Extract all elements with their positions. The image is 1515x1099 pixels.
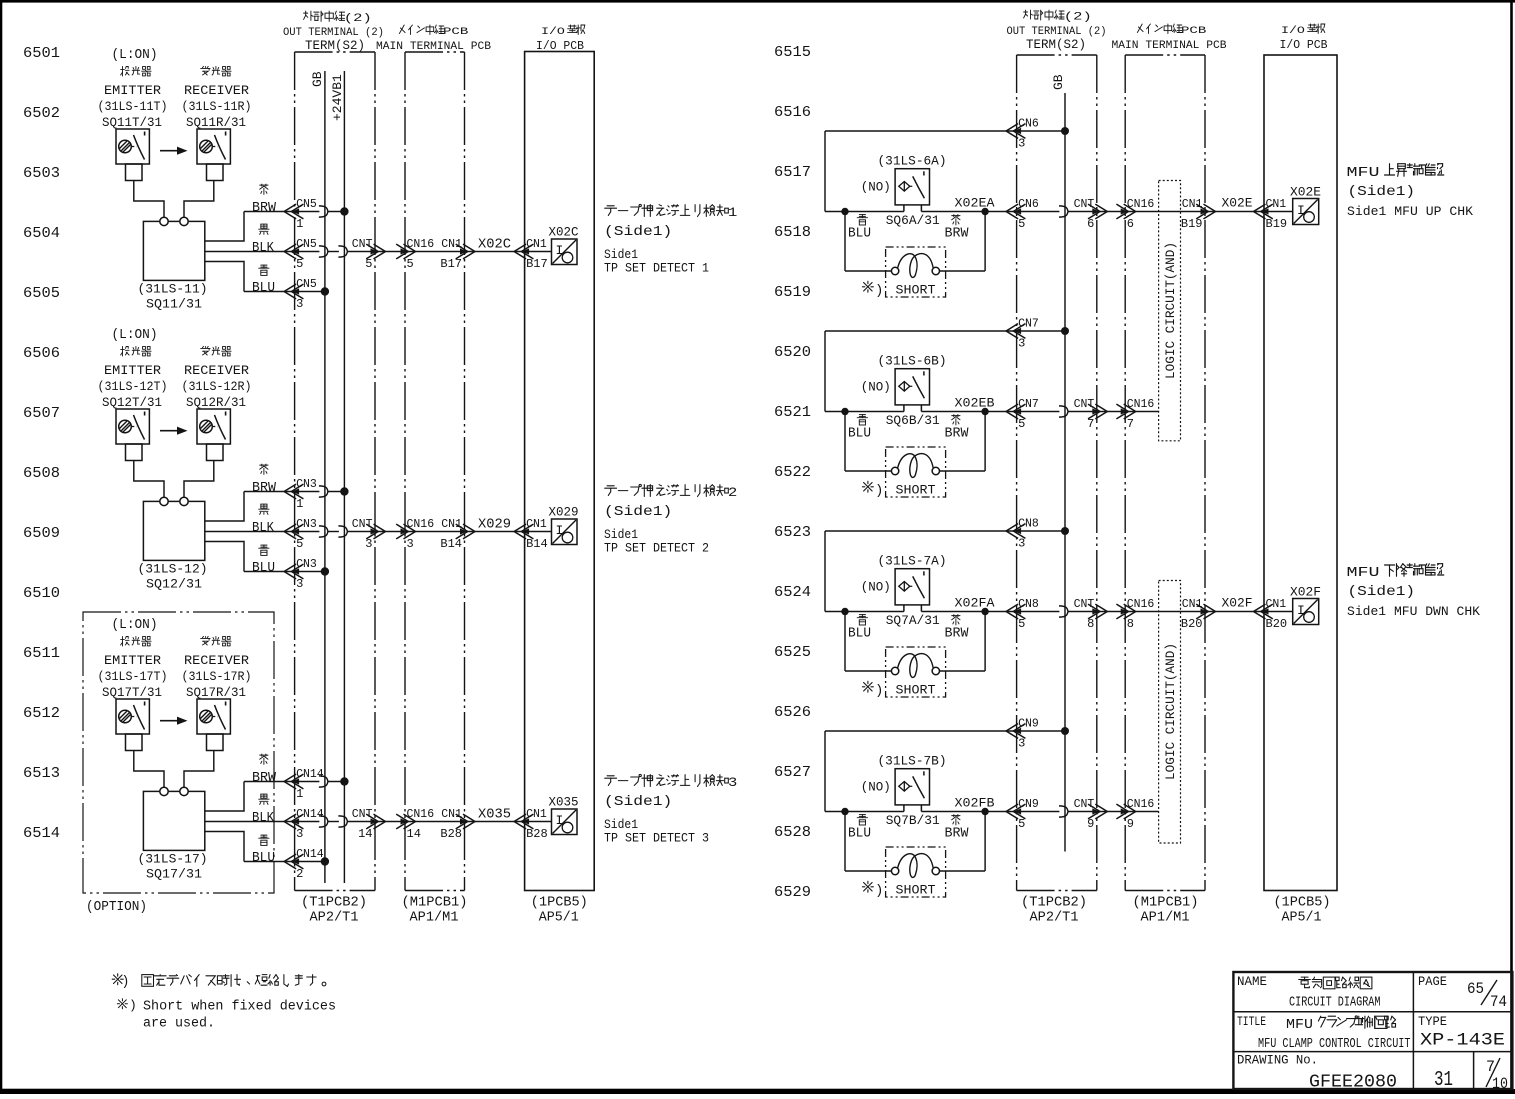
connector CN1 pin B19 arrow xyxy=(1181,198,1216,231)
label (M1PCB1) AP1/M1 left xyxy=(402,896,468,926)
svg-text:BLU: BLU xyxy=(848,827,871,842)
svg-text:(NO): (NO) xyxy=(861,380,891,395)
svg-text:MFU: MFU xyxy=(1286,1018,1313,1033)
I/O PCB box right (1PCB5) xyxy=(1264,55,1337,891)
svg-text:1: 1 xyxy=(296,217,303,231)
svg-text:CN7: CN7 xyxy=(1018,318,1039,331)
switch 31LS-6A (NO) symbol SQ6A/31 xyxy=(825,169,1017,212)
svg-text:(1PCB5): (1PCB5) xyxy=(1274,896,1331,911)
svg-text:BLU: BLU xyxy=(252,561,275,576)
description テープ押え浮上り検知3 (Side1) xyxy=(604,774,737,845)
svg-text:X02E: X02E xyxy=(1290,185,1321,200)
connector CN14 pin 1 arrow xyxy=(284,768,324,801)
svg-text:2: 2 xyxy=(728,485,737,500)
SHORT jumper for 31LS-6A xyxy=(845,212,985,298)
svg-text:6524: 6524 xyxy=(774,584,811,601)
amplifier unit (31LS-11) SQ11/31 xyxy=(138,217,208,311)
svg-text:AP5/1: AP5/1 xyxy=(539,911,579,926)
connector CN16 pin 3 arrow xyxy=(396,518,434,551)
title block DRAWING No. field GFEE2080 xyxy=(1237,1054,1397,1093)
svg-text:3: 3 xyxy=(296,577,303,591)
svg-text:CN1: CN1 xyxy=(441,518,462,531)
svg-text:(2): (2) xyxy=(344,13,372,25)
connector CN14 pin 3 arrow xyxy=(284,808,324,841)
SHORT jumper for 31LS-6B xyxy=(845,412,985,498)
svg-text:CN1: CN1 xyxy=(526,808,547,821)
junction SHORT left at switch row xyxy=(841,208,848,215)
wire receiver to amplifier 31LS-11 xyxy=(184,181,214,218)
svg-text:6521: 6521 xyxy=(774,404,811,421)
svg-text:(31LS-17): (31LS-17) xyxy=(138,852,208,867)
svg-text:CN1: CN1 xyxy=(1266,598,1287,611)
svg-text:(31LS-12R): (31LS-12R) xyxy=(182,379,252,394)
svg-text:6522: 6522 xyxy=(774,464,811,481)
svg-text:NAME: NAME xyxy=(1237,975,1267,989)
svg-text:LOGIC CIRCUIT(AND): LOGIC CIRCUIT(AND) xyxy=(1164,643,1178,780)
svg-text:AP2/T1: AP2/T1 xyxy=(310,911,359,926)
svg-text:1: 1 xyxy=(728,205,738,220)
svg-text:X02C: X02C xyxy=(549,225,579,240)
svg-text:BRW: BRW xyxy=(945,227,970,242)
svg-text:3: 3 xyxy=(1018,737,1025,751)
svg-text:SQ7A/31: SQ7A/31 xyxy=(886,613,940,628)
title block sheet fraction 7/10 xyxy=(1486,1058,1508,1093)
svg-text:5: 5 xyxy=(1018,217,1025,231)
svg-text:(L:ON): (L:ON) xyxy=(112,328,158,343)
svg-text:SHORT: SHORT xyxy=(896,483,936,498)
connector CN16 pin 5 arrow xyxy=(396,238,434,271)
svg-text:(31LS-11T): (31LS-11T) xyxy=(98,99,168,114)
svg-text:(31LS-12T): (31LS-12T) xyxy=(98,379,168,394)
note mark ※) xyxy=(862,681,883,699)
svg-text:7: 7 xyxy=(1127,417,1134,431)
svg-text:I/O: I/O xyxy=(1281,25,1305,37)
wire receiver to amplifier 31LS-17 xyxy=(184,751,214,788)
junction BRW to +24VB1 xyxy=(340,487,348,495)
svg-text:TP SET DETECT 1: TP SET DETECT 1 xyxy=(604,262,709,276)
junction CN8.3 wire to GB xyxy=(1061,527,1069,535)
junction SHORT right / net X02FA xyxy=(981,608,988,615)
SHORT jumper for 31LS-7B xyxy=(845,812,985,898)
svg-text:BRW: BRW xyxy=(945,627,970,642)
svg-text:5: 5 xyxy=(1018,617,1025,631)
svg-text:AP1/M1: AP1/M1 xyxy=(1141,911,1190,926)
svg-text:6526: 6526 xyxy=(774,704,811,721)
svg-text:BLK: BLK xyxy=(252,521,275,536)
label (31LS-6A) and (NO) xyxy=(861,154,947,195)
connector CN1 B14 arrow at I/O PCB xyxy=(514,518,548,551)
wire BLU blue from SQ12 to GB xyxy=(205,542,325,572)
svg-text:8: 8 xyxy=(1127,617,1134,631)
svg-text:Side1: Side1 xyxy=(604,528,638,542)
svg-text:EMITTER: EMITTER xyxy=(104,653,161,668)
connector CNT pin 7 arrow xyxy=(1074,398,1108,431)
wire BRW brown from SQ12 to CN3.1 xyxy=(205,486,345,521)
junction BRW to +24VB1 xyxy=(340,207,348,215)
svg-text:CN9: CN9 xyxy=(1018,718,1039,731)
wire left leg of 31LS-7A xyxy=(824,531,826,612)
svg-text:BLU: BLU xyxy=(848,427,871,442)
svg-text:6517: 6517 xyxy=(774,164,811,181)
svg-text:+24VB1: +24VB1 xyxy=(330,74,345,121)
svg-text:SQ12T/31: SQ12T/31 xyxy=(102,395,162,410)
svg-text:2: 2 xyxy=(296,867,303,881)
label 黒 BLK xyxy=(252,504,275,536)
svg-text:): ) xyxy=(875,483,883,499)
connector CN7 pin 3 arrow xyxy=(1006,318,1039,351)
svg-text:AP1/M1: AP1/M1 xyxy=(410,911,459,926)
svg-text:(L:ON): (L:ON) xyxy=(112,618,158,633)
svg-text:6506: 6506 xyxy=(23,345,60,362)
junction BLU to GB xyxy=(321,857,329,865)
svg-text:(NO): (NO) xyxy=(861,780,891,795)
svg-text:BRW: BRW xyxy=(945,427,970,442)
svg-text:SHORT: SHORT xyxy=(896,283,936,298)
right line numbers 6515-6529 xyxy=(774,44,811,901)
svg-text:BLU: BLU xyxy=(252,851,275,866)
svg-text:X02EB: X02EB xyxy=(955,396,995,411)
svg-text:SQ11T/31: SQ11T/31 xyxy=(102,115,162,130)
wire BRW brown from SQ11 to CN5.1 xyxy=(205,206,345,241)
photoelectric sensor pair 31LS-11 block xyxy=(112,48,158,63)
svg-text:6515: 6515 xyxy=(774,44,811,61)
I/O port symbol X035 xyxy=(549,795,579,835)
svg-text:OUT TERMINAL (2): OUT TERMINAL (2) xyxy=(283,27,384,39)
svg-text:(NO): (NO) xyxy=(861,580,891,595)
label SQ6A/31 with 青 BLU and 茶 BRW xyxy=(848,213,969,242)
label 茶 BRW xyxy=(252,464,277,496)
logic circuit AND box 2 xyxy=(1159,581,1181,844)
power bus +24VB1 (left half) xyxy=(330,71,345,883)
svg-text:SQ17R/31: SQ17R/31 xyxy=(186,685,246,700)
connector CN3 pin 1 arrow xyxy=(284,478,317,511)
label (T1PCB2) AP2/T1 left xyxy=(301,896,367,926)
svg-text:X02E: X02E xyxy=(1222,196,1253,211)
note mark ※) xyxy=(862,481,883,499)
svg-text:CNT: CNT xyxy=(1074,198,1095,211)
terminal column box MAIN TERMINAL PCB left (M1PCB1) xyxy=(405,52,465,891)
svg-text:CN8: CN8 xyxy=(1018,598,1039,611)
svg-text:5: 5 xyxy=(407,257,414,271)
svg-text:B28: B28 xyxy=(526,827,548,841)
emitter cable connector xyxy=(126,734,143,751)
svg-text:TP SET DETECT 2: TP SET DETECT 2 xyxy=(604,542,709,556)
svg-text:TERM(S2): TERM(S2) xyxy=(1026,38,1086,52)
connector CN1 pin B14 arrow xyxy=(440,518,475,551)
svg-text:10: 10 xyxy=(1492,1075,1508,1093)
svg-text:BLU: BLU xyxy=(848,227,871,242)
svg-text:(31LS-17R): (31LS-17R) xyxy=(182,669,252,684)
OPTION dash-dot enclosure around 31LS-17 xyxy=(83,612,274,915)
light beam arrow emitter to receiver xyxy=(160,147,188,155)
svg-text:(31LS-6A): (31LS-6A) xyxy=(878,154,947,169)
svg-text:MFU: MFU xyxy=(1347,565,1380,581)
svg-text:CNT: CNT xyxy=(1074,798,1095,811)
connector CN1 B28 arrow at I/O PCB xyxy=(514,808,548,841)
svg-text:EMITTER: EMITTER xyxy=(104,83,161,98)
connector CN8 pin 5 arrow xyxy=(1006,598,1039,631)
svg-text:(M1PCB1): (M1PCB1) xyxy=(402,896,468,911)
svg-text:MFU: MFU xyxy=(1347,165,1380,181)
right column header OUT TERMINAL(2) / TERM(S2) xyxy=(1007,10,1107,52)
label 茶 BRW xyxy=(252,754,277,786)
connector CNT pin 8 arrow xyxy=(1074,598,1108,631)
label (T1PCB2) AP2/T1 right xyxy=(1021,896,1087,926)
I/O port symbol X02E xyxy=(1290,185,1321,225)
svg-text:CN1: CN1 xyxy=(526,518,547,531)
limit switch block 31LS-6A xyxy=(0,0,1,1)
svg-text:SQ11/31: SQ11/31 xyxy=(146,297,202,312)
connector CNT pin 5 arrow xyxy=(352,238,386,271)
receiver sensor SQ17R/31 symbol xyxy=(197,699,230,734)
svg-text:CN5: CN5 xyxy=(296,238,317,251)
label 青 BLU xyxy=(252,265,275,296)
wire emitter to amplifier 31LS-11 xyxy=(134,181,164,218)
I/O PCB box left (1PCB5) xyxy=(525,52,595,891)
svg-text:CN14: CN14 xyxy=(296,768,324,781)
connector CN16 pin 8 arrow xyxy=(1116,598,1154,631)
svg-text:PCB: PCB xyxy=(1181,25,1206,37)
svg-text:X02C: X02C xyxy=(478,237,511,252)
svg-text:CNT: CNT xyxy=(352,808,373,821)
label (31LS-6B) and (NO) xyxy=(861,354,947,395)
wire receiver to amplifier 31LS-12 xyxy=(184,461,214,498)
connector CN5 pin 3 arrow xyxy=(284,278,317,311)
limit switch block 31LS-7B xyxy=(0,0,1,1)
terminal column box TERM(S2) left (T1PCB2) xyxy=(295,52,375,891)
svg-text:CNT: CNT xyxy=(352,238,373,251)
photoelectric sensor pair 31LS-12 block xyxy=(112,328,158,343)
svg-text:X02FB: X02FB xyxy=(955,796,995,811)
connector CNT pin 9 arrow xyxy=(1074,798,1108,831)
wire BLK black signal from SQ11 through terminals xyxy=(205,246,552,257)
svg-text:3: 3 xyxy=(1018,337,1025,351)
connector CN16 pin 14 arrow xyxy=(396,808,434,841)
limit switch block 31LS-7A xyxy=(0,0,1,1)
junction SHORT left at switch row xyxy=(841,808,848,815)
junction SHORT left at switch row xyxy=(841,608,848,615)
svg-text:): ) xyxy=(875,883,883,899)
left column header I/O PCB xyxy=(536,25,585,53)
svg-text:CN16: CN16 xyxy=(407,808,435,821)
connector CN16 pin 6 arrow xyxy=(1116,198,1154,231)
connector CN16 pin 7 arrow xyxy=(1116,398,1154,431)
logic circuit AND box 1 xyxy=(1159,181,1181,441)
wire BLU blue from SQ17 to GB xyxy=(205,832,325,862)
svg-text:7: 7 xyxy=(1087,417,1094,431)
switch 31LS-6B (NO) symbol SQ6B/31 xyxy=(825,369,1017,412)
label (31LS-7A) and (NO) xyxy=(861,554,947,595)
svg-text:(Side1): (Side1) xyxy=(1348,184,1416,200)
svg-text:AP5/1: AP5/1 xyxy=(1282,911,1322,926)
svg-text:BRW: BRW xyxy=(252,201,277,216)
svg-text:TITLE: TITLE xyxy=(1237,1015,1266,1029)
svg-text:6528: 6528 xyxy=(774,824,811,841)
connector CN5 pin 5 arrow xyxy=(284,238,317,271)
svg-text:(T1PCB2): (T1PCB2) xyxy=(1021,896,1087,911)
svg-text:BLU: BLU xyxy=(252,281,275,296)
signal wire X02FA through terminals xyxy=(1017,606,1293,617)
svg-text:CN16: CN16 xyxy=(407,238,435,251)
junction BLU to GB xyxy=(321,287,329,295)
I/O port symbol X02C xyxy=(549,225,579,265)
svg-text:CN16: CN16 xyxy=(1127,398,1155,411)
connector CN14 pin 2 arrow xyxy=(284,848,324,881)
svg-text:5: 5 xyxy=(296,257,303,271)
emitter labels 投光器 EMITTER (31LS-12T) SQ12T/31 xyxy=(98,347,168,411)
junction BLU to GB xyxy=(321,567,329,575)
receiver labels 受光器 RECEIVER (31LS-12R) SQ12R/31 xyxy=(182,347,252,411)
svg-text:SHORT: SHORT xyxy=(896,883,936,898)
connector CN9 pin 5 arrow xyxy=(1006,798,1039,831)
svg-text:5: 5 xyxy=(1018,417,1025,431)
svg-text:6502: 6502 xyxy=(23,105,60,122)
switch 31LS-7B (NO) symbol SQ7B/31 xyxy=(825,769,1017,812)
svg-text:8: 8 xyxy=(1087,617,1094,631)
connector CNT pin 6 arrow xyxy=(1074,198,1108,231)
svg-text:CN5: CN5 xyxy=(296,198,317,211)
svg-text:X029: X029 xyxy=(549,505,579,520)
label 青 BLU xyxy=(252,835,275,866)
limit switch block 31LS-6B xyxy=(0,0,1,1)
svg-text:X02F: X02F xyxy=(1290,585,1321,600)
svg-text:6509: 6509 xyxy=(23,525,60,542)
receiver cable connector xyxy=(207,444,224,461)
connector CN3 pin 5 arrow xyxy=(284,518,317,551)
connector CN1 pin B17 arrow xyxy=(440,238,475,271)
wire CN7.3 to GB bus xyxy=(825,330,1065,332)
svg-text:CN1: CN1 xyxy=(441,238,462,251)
svg-text:I/O: I/O xyxy=(541,26,565,38)
svg-text:6519: 6519 xyxy=(774,284,811,301)
svg-text:X02EA: X02EA xyxy=(955,196,995,211)
I/O port symbol X02F xyxy=(1290,585,1321,625)
wire left leg of 31LS-6A xyxy=(824,131,826,212)
svg-text:(2): (2) xyxy=(1064,12,1092,24)
svg-text:6501: 6501 xyxy=(23,45,60,62)
wire emitter to amplifier 31LS-12 xyxy=(134,461,164,498)
svg-text:6504: 6504 xyxy=(23,225,60,242)
svg-text:(31LS-11R): (31LS-11R) xyxy=(182,99,252,114)
svg-text:B19: B19 xyxy=(1266,217,1288,231)
svg-text:X035: X035 xyxy=(549,795,579,810)
connector CN1 pin B20 arrow xyxy=(1181,598,1216,631)
signal wire X02FB through terminals xyxy=(1017,806,1159,817)
svg-text:(Side1): (Side1) xyxy=(604,504,672,520)
emitter labels 投光器 EMITTER (31LS-11T) SQ11T/31 xyxy=(98,67,168,131)
svg-text:CN6: CN6 xyxy=(1018,118,1039,131)
svg-text:SQ17/31: SQ17/31 xyxy=(146,867,202,882)
wire BLK black signal from SQ12 through terminals xyxy=(205,526,552,537)
svg-text:7: 7 xyxy=(1486,1058,1495,1076)
svg-text:): ) xyxy=(129,998,137,1013)
connector CNT pin 3 arrow xyxy=(352,518,386,551)
svg-text:6525: 6525 xyxy=(774,644,811,661)
svg-text:): ) xyxy=(875,283,883,299)
svg-text:BRW: BRW xyxy=(945,827,970,842)
svg-text:(Side1): (Side1) xyxy=(1348,584,1416,600)
left column header MAIN TERMINAL PCB xyxy=(376,25,491,53)
svg-text:CNT: CNT xyxy=(1074,398,1095,411)
receiver cable connector xyxy=(207,164,224,181)
svg-text:CN8: CN8 xyxy=(1018,518,1039,531)
note ※) 固定デバイス時は、短絡します。 xyxy=(112,974,326,990)
switch 31LS-7A (NO) symbol SQ7A/31 xyxy=(825,569,1017,612)
svg-text:6518: 6518 xyxy=(774,224,811,241)
svg-text:XP-143E: XP-143E xyxy=(1420,1031,1505,1051)
svg-text:(OPTION): (OPTION) xyxy=(86,900,147,915)
emitter sensor SQ12T/31 symbol xyxy=(116,409,149,444)
svg-text:6513: 6513 xyxy=(23,765,60,782)
svg-text:MAIN TERMINAL PCB: MAIN TERMINAL PCB xyxy=(1112,40,1227,52)
receiver labels 受光器 RECEIVER (31LS-11R) SQ11R/31 xyxy=(182,67,252,131)
svg-text:6512: 6512 xyxy=(23,705,60,722)
svg-text:3: 3 xyxy=(365,537,372,551)
svg-text:OUT TERMINAL (2): OUT TERMINAL (2) xyxy=(1007,26,1107,38)
label 茶 BRW xyxy=(252,184,277,216)
connector CNT pin 14 arrow xyxy=(352,808,386,841)
SHORT jumper for 31LS-7A xyxy=(845,612,985,698)
right column header MAIN TERMINAL PCB xyxy=(1112,24,1227,52)
connector CN1 B20 arrow at I/O PCB xyxy=(1254,598,1288,631)
svg-text:6510: 6510 xyxy=(23,585,60,602)
svg-text:MAIN TERMINAL PCB: MAIN TERMINAL PCB xyxy=(376,41,491,53)
label SQ7A/31 with 青 BLU and 茶 BRW xyxy=(848,613,969,642)
svg-text:MFU CLAMP CONTROL CIRCUIT: MFU CLAMP CONTROL CIRCUIT xyxy=(1258,1037,1411,1052)
svg-text:(31LS-11): (31LS-11) xyxy=(138,282,208,297)
svg-text:CN1: CN1 xyxy=(1266,198,1287,211)
svg-text:BRW: BRW xyxy=(252,481,277,496)
svg-text:CN9: CN9 xyxy=(1018,798,1039,811)
svg-text:Short when fixed devices: Short when fixed devices xyxy=(143,1000,336,1015)
label (31LS-7B) and (NO) xyxy=(861,754,947,795)
svg-text:(31LS-17T): (31LS-17T) xyxy=(98,669,168,684)
svg-text:Side1: Side1 xyxy=(604,248,638,262)
svg-text:CN1: CN1 xyxy=(441,808,462,821)
emitter cable connector xyxy=(126,444,143,461)
emitter labels 投光器 EMITTER (31LS-17T) SQ17T/31 xyxy=(98,637,168,701)
svg-text:(NO): (NO) xyxy=(861,180,891,195)
svg-text:65: 65 xyxy=(1467,980,1484,998)
svg-text:GB: GB xyxy=(1051,74,1066,90)
svg-text:CNT: CNT xyxy=(352,518,373,531)
svg-text:CN16: CN16 xyxy=(1127,198,1155,211)
svg-text:BLU: BLU xyxy=(848,627,871,642)
svg-text:9: 9 xyxy=(1127,817,1134,831)
photoelectric sensor pair 31LS-17 block xyxy=(112,618,158,633)
svg-text:(31LS-7A): (31LS-7A) xyxy=(878,554,947,569)
label SQ7B/31 with 青 BLU and 茶 BRW xyxy=(848,813,969,842)
svg-text:BRW: BRW xyxy=(252,771,277,786)
title block frame xyxy=(1233,972,1512,1089)
svg-text:AP2/T1: AP2/T1 xyxy=(1030,911,1079,926)
svg-text:B14: B14 xyxy=(526,537,548,551)
svg-text:3: 3 xyxy=(407,537,414,551)
svg-text:1: 1 xyxy=(296,497,303,511)
svg-text:9: 9 xyxy=(1087,817,1094,831)
svg-text:I/O PCB: I/O PCB xyxy=(1280,39,1328,52)
svg-text:CN1: CN1 xyxy=(526,238,547,251)
junction SHORT right / net X02EA xyxy=(981,208,988,215)
svg-text:(Side1): (Side1) xyxy=(604,794,672,810)
svg-text:(31LS-7B): (31LS-7B) xyxy=(878,754,947,769)
svg-text:CN7: CN7 xyxy=(1018,398,1039,411)
connector CN6 pin 5 arrow xyxy=(1006,198,1039,231)
svg-text:B14: B14 xyxy=(440,537,462,551)
connector CN1 pin B28 arrow xyxy=(440,808,475,841)
svg-text:are used.: are used. xyxy=(143,1017,215,1032)
receiver cable connector xyxy=(207,734,224,751)
